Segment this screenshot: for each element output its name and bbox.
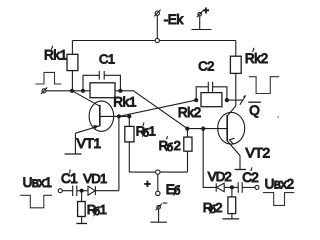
node VT1 collector xyxy=(70,89,74,93)
label Uvx1 xyxy=(23,175,52,190)
transistor VT2 xyxy=(218,106,245,156)
ground VT2 emitter xyxy=(235,169,246,171)
svg-text:2: 2 xyxy=(174,138,181,153)
wire input 1 xyxy=(62,190,72,192)
ground VT1 emitter xyxy=(65,153,82,155)
node input 1 junction xyxy=(80,189,84,193)
ground Rb1 xyxy=(76,223,87,225)
wire -Ek stub xyxy=(156,15,158,40)
wire C'2 to terminal xyxy=(242,186,255,188)
wire VT1 base down to VD1 xyxy=(118,116,120,190)
resistor R2 (parallel with C2) xyxy=(201,93,222,107)
svg-text:2: 2 xyxy=(215,200,222,215)
svg-text:+: + xyxy=(144,178,150,190)
wire collector to R1 xyxy=(72,90,90,92)
node C1 branch right xyxy=(118,89,122,93)
terminal input 2 xyxy=(255,185,259,189)
terminal input 1 xyxy=(58,189,62,193)
node C2 branch right xyxy=(225,98,229,102)
svg-text:1: 1 xyxy=(149,123,156,138)
label Rb1 xyxy=(87,202,107,218)
svg-text:Rk2: Rk2 xyxy=(245,51,268,66)
resistor Rb2 (input) xyxy=(228,190,236,219)
label Q with overline xyxy=(248,102,260,118)
node Eb + junction circle xyxy=(156,170,160,174)
svg-text:Rk1: Rk1 xyxy=(113,94,136,109)
svg-text:+: + xyxy=(203,5,209,17)
label Eb xyxy=(166,182,181,197)
svg-text:2: 2 xyxy=(251,170,259,185)
wire VT2 base down to VD2 xyxy=(203,129,216,188)
svg-text:б: б xyxy=(167,142,173,154)
label Uvx2 xyxy=(265,177,294,192)
diode VD2 xyxy=(216,183,232,192)
transistor VT1 xyxy=(72,91,129,133)
svg-text:C2: C2 xyxy=(198,59,214,74)
svg-text:Q: Q xyxy=(249,103,260,118)
node VT1 base / input junction xyxy=(117,114,121,118)
terminal -Ek xyxy=(154,10,160,17)
node VT1 base / R'b1 junction xyxy=(127,114,131,118)
svg-text:-Ek: -Ek xyxy=(164,12,184,27)
wire top supply rail xyxy=(72,40,235,42)
wire cross-coupling B (VT2 side to VT1 base) xyxy=(119,100,196,116)
wire VT2 base xyxy=(187,128,227,130)
capacitor C2 xyxy=(196,82,227,100)
wire C'1 to VD1 xyxy=(77,190,88,192)
svg-text:Uвх1: Uвх1 xyxy=(23,175,52,190)
svg-text:1: 1 xyxy=(70,171,78,186)
resistor R'b1 (base bias) xyxy=(125,116,134,172)
resistor R'b2 (base bias) xyxy=(184,129,192,173)
node VT2 base / R'b2 junction xyxy=(185,127,189,131)
bottom bias rail xyxy=(129,171,187,173)
resistor R1 (parallel with C1) xyxy=(90,83,115,98)
svg-text:VT1: VT1 xyxy=(77,135,102,151)
label Rb2 xyxy=(203,200,223,216)
wire Eb stub xyxy=(157,174,159,191)
wire VT1 emitter down xyxy=(74,133,76,154)
terminal + (top, common bar) xyxy=(192,11,212,30)
wire to C'2 xyxy=(232,186,238,188)
svg-text:VD2: VD2 xyxy=(208,169,232,184)
node VT2 base / input junction xyxy=(201,127,205,131)
wire cross-coupling A (VT1 collector to VT2 base) xyxy=(134,91,188,129)
label - (bottom) xyxy=(163,202,168,204)
resistor Rk2 xyxy=(230,41,241,107)
svg-text:Rk2: Rk2 xyxy=(178,105,201,120)
label C'2 xyxy=(242,167,259,185)
wire output Q xyxy=(236,99,243,101)
diode VD1 xyxy=(88,186,119,195)
resistor Rb1 (input) xyxy=(78,193,86,224)
svg-text:C1: C1 xyxy=(99,51,115,66)
wire collector output xyxy=(46,90,72,92)
waveform positive pulse (left output) xyxy=(35,72,61,84)
node C1 branch left xyxy=(81,89,85,93)
ground Rb2 xyxy=(223,218,240,220)
output arrow Q xyxy=(240,95,246,105)
terminal - (bottom common) xyxy=(150,204,167,223)
label R'b1 xyxy=(136,122,156,139)
node junction circle on rail xyxy=(155,38,159,42)
resistor Rk1 xyxy=(67,41,78,91)
terminal output 1 xyxy=(41,87,47,94)
svg-text:1: 1 xyxy=(100,202,107,217)
label Rk2 xyxy=(245,48,268,66)
waveform negative pulse (input 2) xyxy=(263,193,294,206)
wire VT2 emitter down xyxy=(239,156,241,170)
terminal Eb xyxy=(156,191,160,195)
node C2 branch left xyxy=(194,98,198,102)
svg-text:Uвх2: Uвх2 xyxy=(265,177,294,192)
svg-text:VT2: VT2 xyxy=(246,144,271,160)
capacitor C1 xyxy=(83,71,120,91)
speck (scan artifact) xyxy=(277,116,279,118)
label C'1 xyxy=(61,170,78,186)
wire R1 right xyxy=(115,90,134,92)
wire R2 right to collector xyxy=(227,99,236,101)
label Rk1 xyxy=(44,46,67,63)
capacitor C'2 xyxy=(238,182,242,193)
capacitor C'1 xyxy=(73,186,77,197)
label R'b2 xyxy=(159,136,181,154)
waveform negative pulse (right collector) xyxy=(249,77,280,94)
svg-text:VD1: VD1 xyxy=(83,171,107,186)
waveform negative pulse (input 1) xyxy=(20,195,52,208)
node input 2 junction xyxy=(230,185,234,189)
svg-text:Rk1: Rk1 xyxy=(44,48,67,63)
